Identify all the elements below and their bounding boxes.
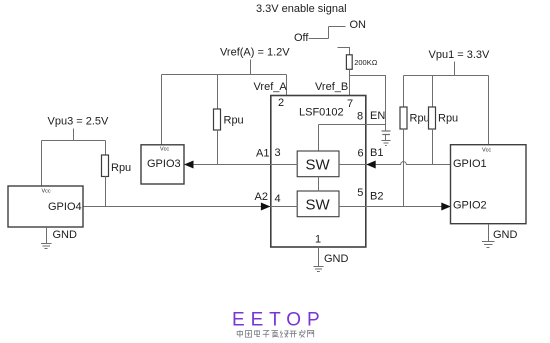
级 [280, 331, 288, 338]
wire: GPIO4 GND stem [46, 227, 48, 244]
svg-text:Off: Off [294, 32, 309, 44]
svg-text:Rpu: Rpu [224, 115, 244, 127]
电 [255, 330, 260, 337]
svg-text:Vcc: Vcc [42, 189, 51, 195]
wire: Vref_B node to EN branch [350, 76, 386, 125]
wire: rail drop to Rpu B1 [432, 76, 434, 108]
wire: Rpu B1 bottom to B1 [432, 129, 434, 165]
ground (GPIO4) [41, 243, 52, 245]
wire: Vpu1 stem [454, 62, 456, 76]
wire: EN [319, 124, 386, 126]
wire: SW1-SW2 link [318, 177, 320, 192]
svg-text:EETOP: EETOP [232, 310, 326, 331]
svg-text:1: 1 [315, 234, 321, 246]
svg-text:5: 5 [357, 187, 363, 199]
svg-text:3: 3 [275, 147, 281, 159]
svg-text:Rpu: Rpu [111, 162, 131, 174]
wire: Vpu3 rail [42, 140, 106, 142]
resistor Rpu (GPIO4 side) [102, 155, 109, 177]
svg-text:Vref(A) = 1.2V: Vref(A) = 1.2V [220, 47, 290, 59]
GPIO1/GPIO2 box [451, 145, 527, 224]
wire: EN internal drop to SW1 [318, 125, 320, 152]
svg-text:Vcc: Vcc [160, 147, 169, 153]
中 [237, 330, 242, 337]
svg-text:SW: SW [306, 157, 331, 174]
svg-text:Vref_B: Vref_B [315, 81, 348, 93]
arrow into pin A2 [261, 203, 271, 211]
svg-text:6: 6 [358, 148, 364, 160]
wire: rail drop to Rpu B2 [403, 76, 405, 108]
logo tagline (Chinese: 中国电子顶级开发网) [237, 330, 314, 338]
arrow into GPIO3 [184, 161, 194, 169]
wire: GPIO1 GND stem [488, 224, 490, 242]
svg-text:Vcc: Vcc [482, 148, 491, 154]
svg-text:Vref_A: Vref_A [254, 81, 288, 93]
IC U1 LSF0102 [271, 96, 366, 248]
GPIO3 box [141, 145, 184, 184]
arrow into GPIO2 [441, 203, 451, 211]
svg-text:GND: GND [53, 229, 78, 241]
svg-text:GND: GND [493, 229, 518, 241]
wire: rail drop to Rpu 4 [105, 141, 107, 156]
开 [290, 331, 297, 337]
resistor Rpu (B1 pull-up) [429, 107, 436, 129]
wire: rail drop to GPIO4 Vcc [41, 141, 43, 187]
svg-text:A1: A1 [256, 148, 269, 160]
ground (IC) [314, 266, 324, 268]
wire: B1 (SW1 to GPIO1) with hop [339, 162, 451, 165]
wire: A1 (GPIO3 to SW1) [184, 164, 298, 166]
svg-text:3.3V enable signal: 3.3V enable signal [256, 3, 347, 15]
网 [308, 330, 314, 337]
wire: Vpu3 stem [73, 129, 75, 141]
wire: A2 (GPIO4 to SW2) [83, 206, 298, 208]
svg-text:B1: B1 [370, 147, 383, 159]
GPIO4 box [8, 186, 83, 227]
svg-text:Vpu1 = 3.3V: Vpu1 = 3.3V [429, 49, 491, 61]
ground (GPIO1) [482, 241, 495, 243]
svg-text:GPIO2: GPIO2 [453, 200, 487, 212]
wire: Vref(A) rail [162, 74, 287, 76]
switch SW2 (box) [297, 191, 339, 217]
wire: rail drop to GPIO1 Vcc [488, 76, 490, 146]
国 [245, 331, 251, 338]
顶 [271, 331, 278, 338]
switch SW1 (box) [297, 151, 339, 177]
svg-text:SW: SW [306, 197, 331, 214]
wire: switch off lead [309, 38, 329, 40]
svg-text:4: 4 [275, 193, 281, 205]
resistor Rpu (A-side) [214, 109, 221, 130]
svg-text:A2: A2 [255, 191, 268, 203]
wire: Rpu4 bottom to A2 [105, 176, 107, 206]
arrow into pin B1 [366, 161, 376, 169]
wire: Rpu A bottom to A1 [217, 130, 219, 165]
wire: Vref(A) stem [250, 60, 252, 75]
svg-text:ON: ON [350, 19, 367, 31]
ground (EN cap) [382, 140, 391, 142]
svg-text:B2: B2 [370, 191, 383, 203]
svg-text:GPIO1: GPIO1 [453, 158, 487, 170]
wire: Rpu B2 bottom down, hop over B1, to B2 [403, 129, 405, 207]
wire: 200K bottom to Vref_B node [349, 69, 351, 96]
capacitor C1 on EN [385, 125, 387, 132]
发 [299, 330, 306, 338]
svg-text:GPIO3: GPIO3 [147, 158, 181, 170]
svg-text:GPIO4: GPIO4 [48, 201, 82, 213]
svg-text:Vpu3 = 2.5V: Vpu3 = 2.5V [48, 116, 110, 128]
svg-text:EN: EN [370, 110, 385, 122]
wire: B2 (SW2 to GPIO2) [339, 206, 451, 208]
svg-text:200KΩ: 200KΩ [354, 58, 378, 67]
svg-text:7: 7 [347, 98, 353, 110]
svg-text:Rpu: Rpu [438, 113, 458, 125]
resistor 200KΩ [346, 55, 352, 70]
svg-text:2: 2 [278, 97, 284, 109]
svg-text:GND: GND [324, 253, 349, 265]
wire: Vpu1 rail [404, 75, 489, 77]
子 [263, 330, 270, 337]
svg-text:LSF0102: LSF0102 [299, 107, 344, 119]
wire: rail drop to GPIO3 Vcc [161, 75, 163, 146]
svg-text:Rpu: Rpu [410, 113, 430, 125]
wire: switch riser [328, 27, 330, 39]
wire: rail drop to Rpu A [217, 75, 219, 110]
wire: IC GND stem [318, 247, 320, 267]
svg-text:8: 8 [357, 111, 363, 123]
resistor Rpu (B2 pull-up) [400, 107, 407, 129]
wire: rail drop to pin 2 [286, 75, 288, 97]
wire: switch on lead [329, 26, 346, 28]
wire: switch pole stub [338, 48, 350, 55]
